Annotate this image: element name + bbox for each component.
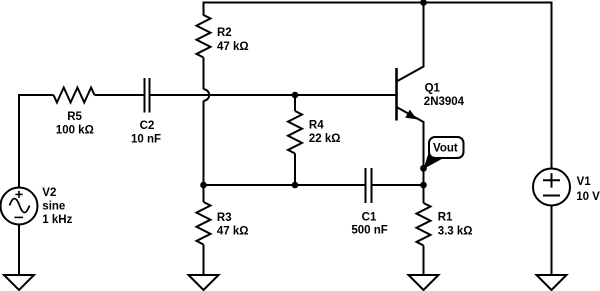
label V2 value — [42, 187, 72, 226]
wire R3 bottom lead — [203, 245, 205, 276]
transistor Q1 emitter arrow — [405, 110, 417, 120]
node collector rail junction — [420, 0, 427, 6]
svg-text:C2: C2 — [140, 120, 155, 132]
svg-text:47 kΩ: 47 kΩ — [217, 226, 249, 238]
wire top supply rail — [204, 2, 552, 4]
svg-text:22 kΩ: 22 kΩ — [309, 133, 341, 145]
label R4 value — [309, 120, 341, 146]
wire V1 bottom lead — [551, 206, 553, 276]
label V1 value — [576, 176, 600, 203]
wire signal line C2 to base — [151, 94, 396, 96]
wire lower feedback line right segment — [373, 184, 424, 186]
ground R3 — [189, 275, 219, 290]
wire R1 top lead — [423, 185, 425, 203]
node feedback line left junction — [200, 182, 207, 189]
ground V2 — [4, 275, 34, 290]
resistor R4 — [288, 111, 302, 154]
label C1 value — [351, 211, 387, 236]
node R4 bottom junction — [292, 182, 299, 189]
label Vout flag tail — [424, 152, 445, 169]
wire left input corner vertical — [18, 96, 20, 188]
transistor Q1 base bar — [395, 68, 398, 121]
svg-text:47 kΩ: 47 kΩ — [217, 41, 249, 53]
node R4 top junction — [292, 92, 299, 99]
capacitor C2 — [145, 78, 150, 113]
wire R4 bottom lead — [294, 154, 296, 186]
source V2 minus sign — [15, 216, 24, 218]
ground R1 — [409, 275, 439, 290]
transistor Q1 emitter stroke — [397, 107, 424, 185]
source V1 minus sign — [543, 195, 560, 197]
wire R2 top lead from rail — [203, 2, 205, 16]
label R1 value — [438, 212, 473, 238]
source V1 circle — [533, 169, 570, 206]
label R2 value — [217, 27, 249, 53]
svg-text:500 nF: 500 nF — [351, 225, 387, 237]
wire lower feedback line left segment — [204, 184, 365, 186]
svg-text:V2: V2 — [42, 187, 56, 199]
svg-text:Q1: Q1 — [425, 82, 441, 94]
resistor R2 — [197, 15, 211, 58]
svg-text:sine: sine — [42, 201, 65, 213]
svg-text:10 V: 10 V — [576, 191, 600, 203]
svg-text:3.3 kΩ: 3.3 kΩ — [438, 226, 473, 238]
svg-text:R1: R1 — [438, 212, 453, 224]
label C2 value — [131, 120, 161, 146]
capacitor C1 — [366, 168, 372, 203]
wire V1 top lead from rail — [551, 2, 553, 169]
label Vout flag box — [429, 137, 464, 158]
wire R3 top lead — [203, 185, 205, 202]
wire hop over signal line (no connection) — [204, 89, 210, 100]
source V2 sine wave — [10, 199, 30, 213]
svg-text:R3: R3 — [217, 212, 232, 224]
node emitter lower junction — [420, 182, 427, 189]
wire hop to lower node — [203, 101, 205, 185]
svg-text:R4: R4 — [309, 120, 324, 132]
svg-text:10 nF: 10 nF — [131, 134, 161, 146]
wire V2 bottom lead — [18, 225, 20, 276]
wire R4 top lead — [294, 95, 296, 111]
resistor R3 — [197, 202, 211, 245]
wire input horizontal to R5 — [18, 94, 54, 96]
source V1 plus sign — [543, 173, 560, 187]
resistor R1 — [417, 203, 431, 246]
svg-text:R5: R5 — [67, 111, 82, 123]
svg-text:C1: C1 — [362, 211, 377, 223]
wire R2 bottom lead to hop — [203, 58, 205, 90]
svg-text:Vout: Vout — [433, 143, 458, 155]
transistor Q1 collector stroke — [397, 3, 424, 82]
ground V1 — [537, 275, 567, 290]
label R5 value — [56, 111, 94, 137]
wire R5 to C2 — [95, 94, 144, 96]
svg-text:1 kHz: 1 kHz — [42, 214, 72, 226]
svg-text:R2: R2 — [217, 27, 232, 39]
svg-text:100 kΩ: 100 kΩ — [56, 125, 94, 137]
node Vout tap — [420, 165, 427, 172]
source V2 plus sign — [15, 191, 22, 198]
svg-text:V1: V1 — [577, 176, 592, 188]
wire R1 bottom lead — [423, 246, 425, 276]
svg-text:2N3904: 2N3904 — [424, 96, 465, 108]
source V2 circle — [1, 188, 38, 225]
label Q1 type — [424, 82, 465, 107]
resistor R5 — [54, 88, 95, 103]
label R3 value — [217, 212, 249, 238]
